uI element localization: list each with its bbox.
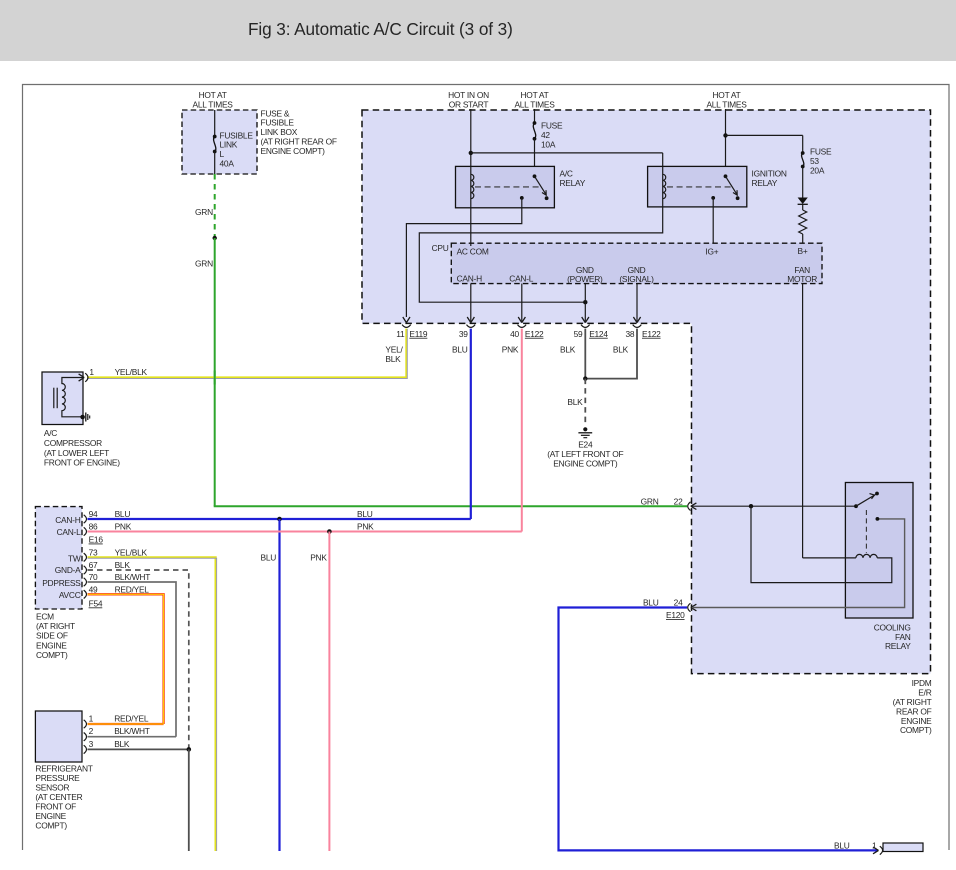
svg-text:BLK: BLK [114, 739, 130, 749]
svg-text:ENGINE COMPT): ENGINE COMPT) [553, 459, 618, 469]
svg-text:E122: E122 [525, 329, 544, 339]
svg-text:3: 3 [89, 739, 94, 749]
svg-text:E119: E119 [409, 329, 428, 339]
svg-text:BLK/WHT: BLK/WHT [114, 726, 150, 736]
svg-text:GRN: GRN [195, 259, 213, 269]
svg-text:40: 40 [510, 329, 519, 339]
svg-text:E124: E124 [589, 329, 608, 339]
svg-text:CAN-L: CAN-L [509, 274, 533, 284]
wire: AC COM from A/C relay coil [470, 208, 472, 246]
svg-text:GND-A: GND-A [55, 565, 81, 575]
svg-text:RELAY: RELAY [752, 178, 778, 188]
wire BLK vertical to bottom [188, 749, 190, 851]
node: junction of BLK wires [583, 376, 587, 380]
cooling fan relay coil [803, 554, 878, 558]
wire BLK from pin 59 down [584, 329, 586, 379]
svg-text:MOTOR: MOTOR [787, 274, 817, 284]
wire: HOT AT ALL TIMES feed to ignition relay switch [725, 109, 727, 176]
relay: IGNITION RELAY [648, 166, 747, 207]
svg-text:CAN-H: CAN-H [55, 515, 80, 525]
wire: diode to resistor [802, 204, 804, 210]
condenser fan motor (clipped at bottom) [883, 843, 923, 852]
wire GRN dashed [214, 174, 216, 238]
wire BLU from pin 39 down [470, 329, 472, 519]
fuse F53 20A [801, 151, 805, 155]
svg-text:E/R: E/R [918, 687, 931, 697]
relay: A/C RELAY [456, 166, 555, 207]
svg-text:BLK: BLK [115, 560, 131, 570]
wire PNK vertical to bottom [328, 532, 330, 852]
svg-text:BLK: BLK [567, 397, 583, 407]
refrigerant pressure sensor [35, 711, 82, 762]
wire BLK from pin 38, joins pin 59 wire [585, 329, 637, 379]
wire: pin 22 to cooling fan relay switch [692, 505, 856, 507]
svg-text:(AT RIGHT: (AT RIGHT [36, 621, 75, 631]
svg-text:40A: 40A [220, 159, 235, 169]
compressor clutch plates [53, 388, 55, 409]
pin 40 connector E122 [518, 317, 525, 323]
svg-text:B+: B+ [798, 246, 808, 256]
node: junction BLK at sensor [187, 747, 192, 752]
svg-text:A/C: A/C [560, 169, 573, 179]
svg-text:OR START: OR START [449, 99, 489, 109]
node: junction to fuse 53 branch [723, 133, 727, 137]
wire: ignition relay coil to GND (POWER) net [419, 207, 662, 302]
svg-text:24: 24 [674, 597, 683, 607]
wire BLK (GND-A) dashed, down to sensor pin 3 net [88, 570, 189, 749]
svg-text:53: 53 [810, 156, 819, 166]
svg-text:GRN: GRN [641, 496, 659, 506]
fuse F42 10A [533, 121, 537, 125]
svg-text:59: 59 [574, 329, 583, 339]
svg-text:67: 67 [89, 560, 98, 570]
svg-text:BLU: BLU [115, 509, 131, 519]
wire: HOT IN ON branch to ignition relay coil [471, 152, 663, 154]
ground (chassis) at compressor [80, 415, 85, 420]
title bar [0, 0, 956, 61]
pin 24 connector E120 (IPDM left edge) [688, 603, 691, 612]
wire: junction to cooling fan relay coil (right end) [751, 506, 892, 582]
svg-text:COMPT): COMPT) [36, 650, 68, 660]
wire GRN (over YEL/BLK crossing) [214, 371, 216, 385]
svg-text:11: 11 [396, 329, 405, 339]
svg-text:COOLING: COOLING [874, 622, 911, 632]
cooling fan relay actuation dashed link [865, 510, 867, 553]
ignition relay switch [724, 174, 728, 178]
svg-text:RED/YEL: RED/YEL [115, 584, 150, 594]
pin 49 socket [84, 590, 87, 598]
svg-text:AC COM: AC COM [457, 247, 489, 257]
pin 94 socket [84, 515, 87, 523]
svg-text:PNK: PNK [502, 345, 519, 355]
pin 39 connector [467, 317, 474, 323]
A/C relay actuation dashed link [475, 186, 539, 188]
svg-text:ALL TIMES: ALL TIMES [514, 99, 555, 109]
wire: fuse 53 down to diode [802, 167, 804, 199]
svg-text:1: 1 [872, 841, 877, 851]
pin 70 socket [84, 578, 87, 586]
wire: branch to fuse 53 [726, 134, 803, 136]
fuse & fusible link box (dashed) [182, 110, 257, 174]
svg-text:BLU: BLU [834, 841, 850, 851]
IPDM E/R block (large dashed lavender box) [362, 110, 931, 674]
pin 67 socket [84, 566, 87, 574]
wire BLK/WHT sensor pin 2 [88, 736, 177, 738]
diode (in-line, pointing down) [798, 198, 808, 205]
svg-text:FRONT OF: FRONT OF [35, 802, 76, 812]
svg-text:AVCC: AVCC [59, 590, 81, 600]
svg-text:(AT LOWER LEFT: (AT LOWER LEFT [44, 448, 109, 458]
svg-text:1: 1 [89, 714, 94, 724]
node: junction on PNK wire [327, 529, 332, 534]
svg-text:ENGINE COMPT): ENGINE COMPT) [261, 146, 326, 156]
svg-text:RELAY: RELAY [560, 178, 586, 188]
pin 86 socket [84, 527, 87, 535]
svg-text:FRONT OF ENGINE): FRONT OF ENGINE) [44, 458, 120, 468]
svg-text:BLK: BLK [560, 345, 576, 355]
svg-text:Fig 3: Automatic A/C Circuit (: Fig 3: Automatic A/C Circuit (3 of 3) [248, 19, 513, 39]
svg-text:73: 73 [89, 547, 98, 557]
svg-text:FUSE: FUSE [541, 120, 563, 130]
wire GRN solid down [214, 238, 216, 506]
svg-text:ALL TIMES: ALL TIMES [706, 99, 747, 109]
svg-text:IG+: IG+ [705, 247, 718, 257]
svg-text:(SIGNAL): (SIGNAL) [619, 274, 654, 284]
svg-text:RELAY: RELAY [885, 641, 911, 651]
node: junction HOT IN ON split [469, 151, 473, 155]
wire YEL/BLK from pin 11 to A/C compressor [87, 329, 406, 378]
svg-text:PDPRESS: PDPRESS [42, 578, 81, 588]
A/C relay coil [470, 166, 472, 207]
svg-text:ALL TIMES: ALL TIMES [193, 99, 234, 109]
svg-text:CPU: CPU [432, 243, 449, 253]
svg-text:RED/YEL: RED/YEL [114, 714, 149, 724]
CPU block (dashed) [451, 243, 822, 283]
wire BLK/WHT (PDPRESS) down to sensor pin 2 [88, 582, 177, 737]
wire GRN horizontal to IPDM pin 22 [214, 505, 687, 507]
svg-text:22: 22 [674, 496, 683, 506]
svg-text:GRN: GRN [195, 207, 213, 217]
ground G E24 [583, 427, 587, 431]
svg-text:BLU: BLU [261, 553, 277, 563]
wire: resistor to CPU B+ [802, 234, 804, 246]
svg-text:2: 2 [89, 726, 94, 736]
svg-text:YEL/BLK: YEL/BLK [115, 547, 148, 557]
wire BLK sensor pin 3 [88, 748, 189, 750]
svg-text:YEL/BLK: YEL/BLK [115, 367, 148, 377]
ignition relay coil [662, 166, 664, 207]
wire RED/YEL (AVCC) down to sensor pin 1 [88, 594, 164, 724]
A/C compressor (clutch coil) [42, 372, 83, 425]
compressor coil [62, 378, 83, 417]
wire BLU from pin 24 to bottom right component [559, 608, 878, 851]
wire BLU (CAN-H) to pin 39 column [88, 518, 471, 520]
wire: ignition relay output to CPU IG+ [712, 198, 714, 246]
svg-text:E24: E24 [578, 440, 593, 450]
svg-text:(POWER): (POWER) [567, 274, 603, 284]
wire RED/YEL sensor pin 1 [88, 723, 164, 725]
svg-text:E120: E120 [666, 610, 685, 620]
svg-text:49: 49 [89, 584, 98, 594]
svg-text:PNK: PNK [357, 522, 374, 532]
wire: feed into fusible link [214, 110, 216, 136]
cooling fan relay switch [854, 504, 858, 508]
wire: GND (POWER) to pin 59 [584, 284, 586, 323]
svg-text:IGNITION: IGNITION [752, 169, 787, 179]
A/C relay switch [533, 174, 537, 178]
pin 3 socket [84, 745, 87, 753]
wire BLU vertical to bottom [278, 519, 280, 851]
svg-text:20A: 20A [810, 166, 825, 176]
wire: HOT AT ALL TIMES feed to fuse 42 [534, 109, 536, 123]
node: junction on GRN wire [213, 236, 217, 240]
svg-text:BLU: BLU [452, 345, 468, 355]
pin 22 connector (IPDM left edge) [688, 502, 691, 511]
wire: A/C relay output to pin 11 [406, 198, 521, 317]
svg-text:39: 39 [459, 329, 468, 339]
svg-text:BLU: BLU [357, 509, 373, 519]
wire PNK (CAN-L) to pin 40 column [88, 531, 522, 533]
svg-text:86: 86 [89, 522, 98, 532]
svg-text:BLK/WHT: BLK/WHT [115, 572, 151, 582]
svg-text:TW: TW [68, 554, 81, 564]
svg-text:(AT LEFT FRONT OF: (AT LEFT FRONT OF [547, 449, 623, 459]
svg-text:1: 1 [89, 367, 94, 377]
pin 73 socket [84, 553, 87, 561]
svg-text:70: 70 [89, 572, 98, 582]
pin 1 arrow + socket [79, 374, 85, 381]
svg-text:ECM: ECM [36, 611, 54, 621]
wire YEL/BLK (TW) down to bottom [88, 557, 216, 851]
wire: fusible link to box bottom [214, 152, 216, 175]
pin 59 connector E124 [582, 317, 589, 323]
svg-text:A/C: A/C [44, 428, 57, 438]
ignition relay actuation dashed link [667, 186, 731, 188]
svg-text:38: 38 [625, 329, 634, 339]
pin 1 socket [84, 720, 87, 728]
svg-text:BLK: BLK [613, 345, 629, 355]
resistor (zigzag) [799, 210, 807, 234]
pin 38 connector E122 [633, 317, 640, 323]
relay: COOLING FAN RELAY [845, 483, 913, 619]
wire: CAN-L to pin 40 [521, 284, 523, 323]
node: junction on BLU wire [277, 517, 282, 522]
pin 2 socket [84, 733, 87, 741]
svg-text:E122: E122 [642, 329, 661, 339]
svg-text:REAR OF: REAR OF [896, 706, 932, 716]
wire PNK from pin 40 down [521, 329, 523, 532]
wire: FAN MOTOR output down to cooling fan relay coil [802, 284, 804, 558]
ECM connector block (dashed) [35, 507, 82, 609]
pin 11 connector E119 (arrow + socket) [403, 317, 410, 323]
svg-text:BLU: BLU [643, 597, 659, 607]
node: junction on GND (POWER) wire [583, 300, 587, 304]
svg-text:10A: 10A [541, 139, 556, 149]
wire: GND (SIGNAL) to pin 38 [636, 284, 638, 323]
pin 1 connector (arrow + socket) [873, 847, 879, 854]
svg-text:PRESSURE: PRESSURE [35, 773, 80, 783]
wire BLK dashed to ground E24 [584, 379, 586, 425]
svg-text:SIDE OF: SIDE OF [36, 631, 68, 641]
svg-text:COMPT): COMPT) [35, 821, 67, 831]
svg-text:CAN-L: CAN-L [57, 527, 81, 537]
node: junction on pin 22 wire [749, 504, 753, 508]
wire: CAN-H to pin 39 [470, 284, 472, 323]
svg-text:F54: F54 [89, 598, 103, 608]
svg-text:COMPRESSOR: COMPRESSOR [44, 438, 102, 448]
svg-text:(AT CENTER: (AT CENTER [35, 792, 82, 802]
svg-text:42: 42 [541, 130, 550, 140]
svg-text:ENGINE: ENGINE [35, 811, 66, 821]
svg-text:FUSE: FUSE [810, 147, 832, 157]
svg-text:CAN-H: CAN-H [457, 274, 482, 284]
svg-text:SENSOR: SENSOR [35, 783, 69, 793]
svg-text:PNK: PNK [310, 553, 327, 563]
fusible link L 40A (fuse symbol) [213, 135, 217, 139]
svg-text:PNK: PNK [115, 522, 132, 532]
svg-text:YEL/: YEL/ [385, 345, 403, 355]
svg-text:COMPT): COMPT) [900, 725, 932, 735]
wire: HOT IN ON feed down to A/C relay coil [470, 109, 472, 171]
svg-text:ENGINE: ENGINE [36, 640, 67, 650]
svg-text:94: 94 [89, 509, 98, 519]
wire: fuse 42 to A/C relay switch [534, 139, 536, 177]
wire: pin 24 to cooling fan relay contact [692, 519, 905, 608]
svg-text:BLK: BLK [385, 354, 401, 364]
svg-text:E16: E16 [89, 535, 104, 545]
svg-text:IPDM: IPDM [912, 678, 932, 688]
